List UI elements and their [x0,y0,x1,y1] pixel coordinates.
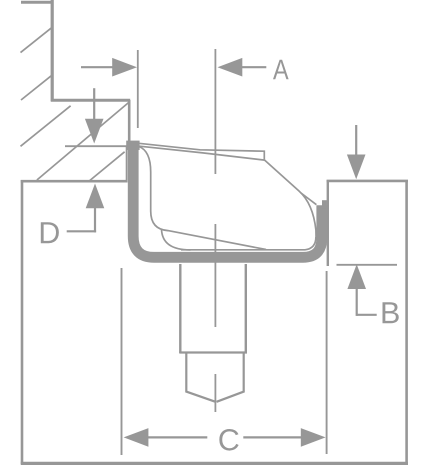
right counter block right edge [405,180,408,464]
sink right rim lip [322,200,327,208]
tailpiece chamfer right [217,391,245,402]
dim D: down arrowhead [85,119,104,144]
tailpiece left edge [185,353,187,392]
right counter level marker arrowhead [347,155,366,180]
dim D: letter D [41,222,59,243]
dim D: rim level extension line [65,145,127,147]
left counter block left edge [21,180,24,464]
counter cutout face (left) [126,146,128,181]
dim A: left-pointing arrowhead at centerline [218,58,243,77]
dim D: up arrowhead [86,184,105,209]
dim D: leader to letter [67,230,96,232]
dim B: letter B [383,302,399,323]
sink deck lower line T1b [140,146,265,160]
hatch line h4 [37,103,129,180]
dim C: letter C [219,429,238,451]
tailpiece chamfer left [186,391,216,402]
deck-to-rim branch line [301,193,316,205]
dim A: sink edge extension line [137,50,139,128]
wall top edge [21,1,54,4]
dim A: right arrow shaft [242,66,267,68]
drain body left edge [179,264,181,353]
centerline segment 1 (A extension) [214,49,216,174]
dim C: right shaft [243,436,301,438]
centerline segment 2 [214,224,216,327]
right counter block top edge [327,180,408,183]
dim D: down arrow stem [93,88,95,120]
left counter block top edge [21,180,128,183]
bowl inner-left wall and floor [139,147,266,250]
dim A: left arrow shaft [81,66,113,68]
bowl inner bottom line [181,237,316,250]
bowl bottom-left corner arc [162,230,191,250]
wall face vertical [51,0,54,102]
drain body bottom divider [179,351,247,353]
sink deck top line T1a [138,143,265,160]
backsplash face vertical [128,100,131,143]
dim D: up arrow stem [94,207,96,232]
drain body right edge [245,264,247,353]
dim C: right extension line [326,271,328,454]
dim B: leader to letter [357,314,377,316]
right counter level marker stem [355,125,357,156]
bottom board line [21,462,408,465]
hatch line h1 [21,28,52,53]
dim B: stem [356,288,358,316]
hatch line h2 [21,76,52,100]
sink left rim cap [126,141,139,150]
hatch line h5 [89,152,124,181]
centerline segment 3 [214,374,216,412]
step ledge horizontal [51,99,130,102]
dim A: right-pointing arrowhead [112,58,137,77]
right counter block inner edge [327,180,329,266]
dim C: right arrowhead [301,428,326,447]
dim A: letter A [273,60,289,79]
sink shell (thick section) [133,143,322,257]
dim C: left shaft [148,436,208,438]
dim C: left extension line [121,268,123,455]
dim B: sink bottom extension line [337,264,398,266]
hatch line h3 [21,106,71,147]
dim B: up arrowhead [347,264,366,289]
sink front slope T2 [265,160,317,240]
tailpiece right edge [243,353,245,392]
dim C: left arrowhead [124,428,149,447]
